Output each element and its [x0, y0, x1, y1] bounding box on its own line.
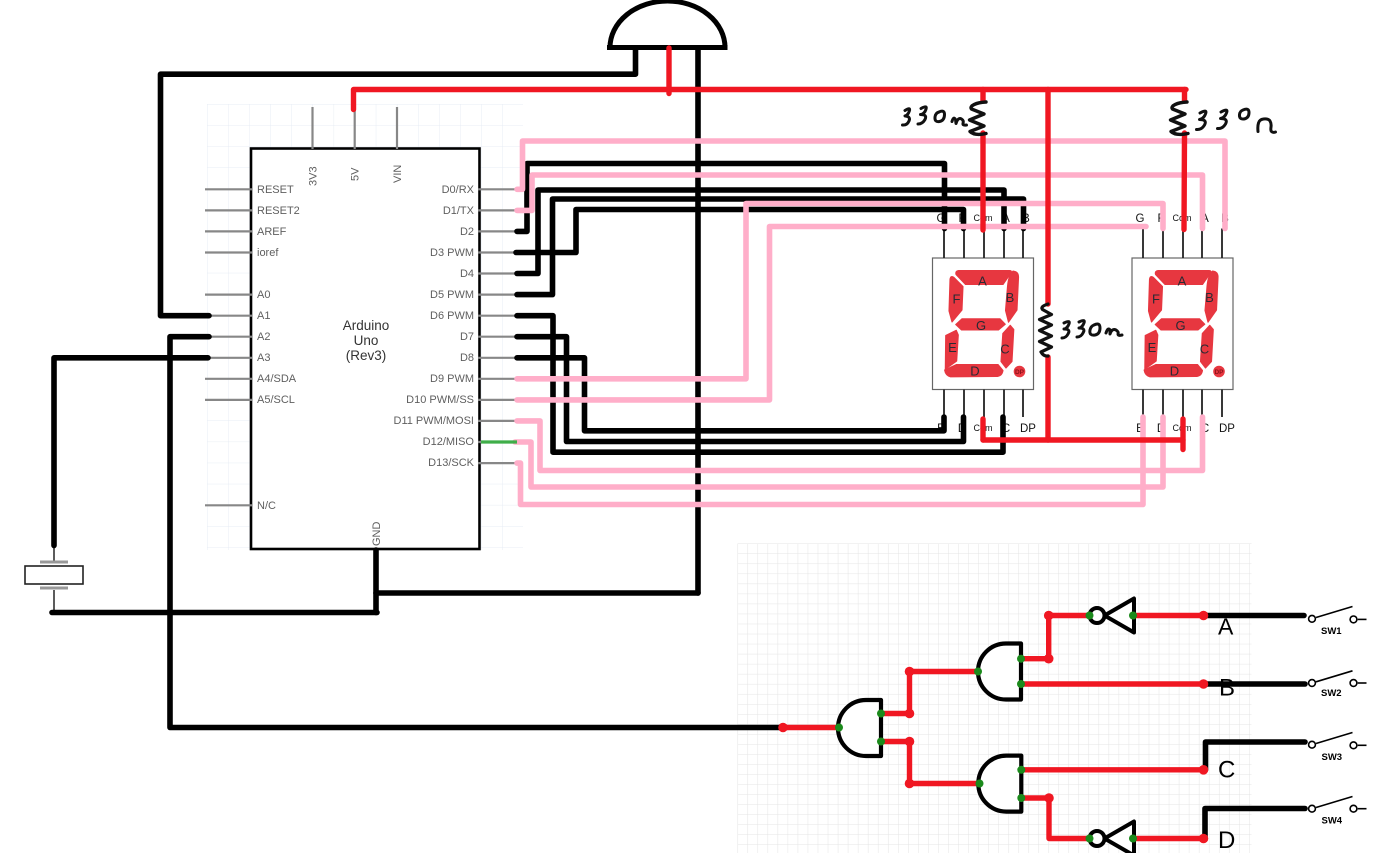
- svg-text:DP: DP: [1219, 423, 1235, 435]
- svg-text:RESET2: RESET2: [257, 205, 300, 217]
- junction dot U2 input1 corner: [1044, 654, 1054, 664]
- wire buzzer right leg to GND net: [695, 49, 701, 593]
- switch SW1: [1309, 607, 1367, 638]
- svg-text:C: C: [1218, 757, 1235, 784]
- svg-text:D5 PWM: D5 PWM: [430, 289, 474, 301]
- wire D5 to display DS1 pin B: [517, 199, 1024, 295]
- junction dot at U1 output net: [778, 723, 788, 733]
- wire common net horizontal: [983, 437, 1183, 442]
- display DS1 bottom pin labels E D Com C DP: [937, 423, 1036, 435]
- svg-text:AREF: AREF: [257, 226, 287, 238]
- svg-text:G: G: [1136, 213, 1145, 225]
- junction dot U1 input2 corner: [905, 737, 915, 747]
- svg-text:D12/MISO: D12/MISO: [423, 436, 475, 448]
- svg-text:D0/RX: D0/RX: [442, 184, 475, 196]
- resistor R1 squiggle: [970, 102, 987, 134]
- wire switch SW4 to node D: [1204, 809, 1306, 839]
- svg-text:D13/SCK: D13/SCK: [428, 457, 475, 469]
- wire D0/RX to display DS2 pin B: [517, 141, 1225, 229]
- terminal dot U3 input1: [1017, 766, 1025, 774]
- arduino left pin labels: [257, 184, 300, 512]
- svg-text:A3: A3: [257, 352, 270, 364]
- svg-text:A4/SDA: A4/SDA: [257, 373, 297, 385]
- logic gate U1 (mirrored AND): [838, 700, 881, 756]
- terminal dot U3 output: [976, 780, 984, 788]
- svg-text:SW2: SW2: [1321, 688, 1342, 699]
- junction dot node A: [1199, 611, 1209, 621]
- svg-text:D1/TX: D1/TX: [443, 205, 475, 217]
- wire inverter U4 output to gate U2 input1: [1021, 616, 1091, 659]
- junction dot node B: [1199, 679, 1209, 689]
- wire rail to resistor R1 top: [980, 90, 985, 102]
- terminal dot U4 output: [1086, 612, 1094, 620]
- logic gate U3 (mirrored AND): [978, 756, 1021, 812]
- wire D11 to display DS2 pin C (bottom): [517, 417, 1203, 471]
- wire D7 to display DS1 pin D: [517, 337, 964, 442]
- svg-text:Uno: Uno: [354, 333, 379, 348]
- wire battery negative to GND net: [52, 610, 377, 616]
- WIRES-RED: [354, 48, 1204, 839]
- resistor R3 squiggle: [1040, 304, 1052, 356]
- WIRES-PINK: [515, 141, 1225, 505]
- display DS2 top pin labels G F Com A B: [1136, 213, 1230, 225]
- wire D9 to display DS2 pin F: [517, 204, 1163, 379]
- arduino top pin stubs 3V3 5V VIN: [313, 107, 398, 149]
- arduino right pin labels: [394, 184, 475, 469]
- wire buzzer positive leg: [666, 48, 671, 94]
- wire D3 to display DS1 pin F: [516, 210, 964, 253]
- svg-text:A0: A0: [257, 289, 270, 301]
- terminal dot U1 input2: [877, 738, 885, 746]
- svg-text:5V: 5V: [350, 167, 362, 181]
- wire inverter U4 input to node A: [1133, 613, 1204, 618]
- svg-text:D4: D4: [460, 268, 474, 280]
- resistor R2 squiggle: [1171, 102, 1189, 134]
- terminal dot U1 output: [835, 724, 843, 732]
- svg-text:A: A: [1218, 614, 1234, 640]
- terminal dot U1 input1: [877, 710, 885, 718]
- svg-text:ioref: ioref: [257, 247, 279, 259]
- switch SW4: [1309, 797, 1367, 827]
- wire D1/TX to display DS2 pin A: [517, 175, 1203, 229]
- grid canvas (arduino area): [207, 104, 523, 550]
- junction dot U3 output corner: [905, 779, 915, 789]
- wire D12 green stub: [481, 440, 517, 443]
- svg-text:D6 PWM: D6 PWM: [430, 310, 474, 322]
- logic gate U2 (mirrored AND): [978, 644, 1021, 700]
- svg-text:A5/SCL: A5/SCL: [257, 394, 295, 406]
- terminal dot U5 output: [1086, 835, 1094, 843]
- wire A3 to battery positive: [54, 358, 208, 546]
- wire rail end to resistor R2: [1182, 90, 1187, 102]
- svg-text:D8: D8: [460, 352, 474, 364]
- svg-text:GND: GND: [371, 522, 383, 547]
- terminal dot U2 input2: [1017, 680, 1025, 688]
- junction dot U2 output corner: [905, 667, 915, 677]
- svg-text:D9 PWM: D9 PWM: [430, 373, 474, 385]
- wire gate U3 input1 to node C: [1021, 767, 1203, 772]
- wire inverter U5 input to node D: [1133, 836, 1204, 841]
- arduino U6 body: [251, 149, 480, 550]
- wire D4 to display DS1 pin A: [517, 190, 1004, 274]
- svg-text:3V3: 3V3: [308, 166, 320, 186]
- 7-segment display DS1: [933, 213, 1037, 435]
- terminal dot U2 input1: [1017, 655, 1025, 663]
- svg-text:D10 PWM/SS: D10 PWM/SS: [406, 394, 474, 406]
- svg-text:SW1: SW1: [1321, 626, 1342, 637]
- svg-text:A1: A1: [257, 310, 270, 322]
- wire node to gate U1 output: [783, 725, 839, 730]
- junction dot U3 input2 corner: [1044, 793, 1054, 803]
- svg-text:A2: A2: [257, 331, 270, 343]
- wire switch SW3 to node C: [1204, 742, 1306, 770]
- svg-text:D11 PWM/MOSI: D11 PWM/MOSI: [394, 415, 474, 427]
- svg-text:VIN: VIN: [392, 165, 404, 183]
- wire D10 to display DS2 pin G: [517, 227, 1146, 400]
- svg-text:RESET: RESET: [257, 184, 294, 196]
- switch SW3: [1309, 733, 1367, 764]
- battery BT1: [25, 544, 83, 613]
- svg-text:D7: D7: [460, 331, 474, 343]
- wire gate U2 input2 to node B: [1021, 681, 1204, 686]
- wire DS2 Com bottom stub: [1180, 419, 1185, 450]
- arduino top pin labels: [308, 165, 405, 546]
- wire A2 to logic gate U1 output net: [170, 337, 783, 728]
- wire gate U3 input2 to inverter U5 output: [1021, 798, 1091, 839]
- resistor R2 label 330 ohm: [1197, 109, 1276, 132]
- svg-text:SW4: SW4: [1322, 816, 1343, 827]
- resistor R1 label 330 ohm: [903, 107, 967, 125]
- wire buzzer left leg to A1: [161, 49, 636, 316]
- svg-text:D: D: [1218, 827, 1235, 853]
- wire gate U3 output to gate U1 input2: [881, 742, 980, 784]
- terminal dot U3 input2: [1017, 794, 1025, 802]
- display DS2 bottom pin labels E D Com C DP: [1136, 423, 1235, 435]
- junction dot U1 input1 corner: [905, 709, 915, 719]
- wire D2 to display DS1 pin G: [517, 164, 945, 232]
- wire rail to resistor R3 top: [1045, 90, 1050, 305]
- svg-text:SW3: SW3: [1322, 752, 1343, 763]
- wire 5V to power rail: [354, 90, 1187, 110]
- terminal dot U4 input: [1129, 612, 1137, 620]
- terminal dot U5 input: [1129, 835, 1137, 843]
- svg-text:D2: D2: [460, 226, 474, 238]
- arduino right pin stubs: [478, 189, 520, 463]
- junction dot U4 output corner: [1044, 611, 1054, 621]
- svg-text:N/C: N/C: [257, 500, 276, 512]
- switch SW2: [1309, 671, 1367, 699]
- wire DS1 Com bottom stub: [980, 419, 985, 440]
- wire gate U2 output to gate U1 input1: [881, 672, 978, 714]
- 7-segment display DS2: [1132, 213, 1235, 435]
- grid canvas (logic gate area): [738, 544, 1252, 853]
- buzzer BZ1: [607, 1, 728, 48]
- svg-text:B: B: [1219, 675, 1235, 702]
- wire resistor R1 bottom to display DS1 Com: [980, 133, 985, 230]
- inverter U5 (pointing left): [1090, 822, 1135, 853]
- wire D6 to display DS1 pin C: [517, 316, 1003, 453]
- junction dot node D: [1199, 834, 1209, 844]
- wire switch SW1 to node A: [1204, 613, 1305, 619]
- inverter U4 (pointing left): [1090, 599, 1135, 633]
- junction dot node C: [1199, 765, 1209, 775]
- terminal dot U2 output: [974, 668, 982, 676]
- wire resistor R3 bottom to common net: [1045, 357, 1050, 440]
- wire GND pin down: [373, 550, 379, 613]
- svg-text:Arduino: Arduino: [343, 318, 390, 333]
- display DS1 top pin labels G F Com A B: [937, 213, 1031, 225]
- wire D8 to display DS1 pin E: [517, 358, 944, 431]
- svg-text:(Rev3): (Rev3): [346, 348, 387, 363]
- arduino left pin stubs: [205, 189, 252, 505]
- resistor R3 label 330 ohm: [1062, 321, 1122, 338]
- wire GND branch to buzzer leg: [376, 590, 698, 596]
- wire D13 to display DS2 pin E (bottom): [517, 417, 1143, 505]
- wire resistor R2 bottom to display DS2 Com: [1181, 133, 1187, 230]
- svg-text:DP: DP: [1020, 423, 1036, 435]
- wire D12 to display DS2 pin D (bottom): [515, 417, 1163, 487]
- wire switch SW2 to node B: [1204, 681, 1306, 687]
- svg-text:D3 PWM: D3 PWM: [430, 247, 474, 259]
